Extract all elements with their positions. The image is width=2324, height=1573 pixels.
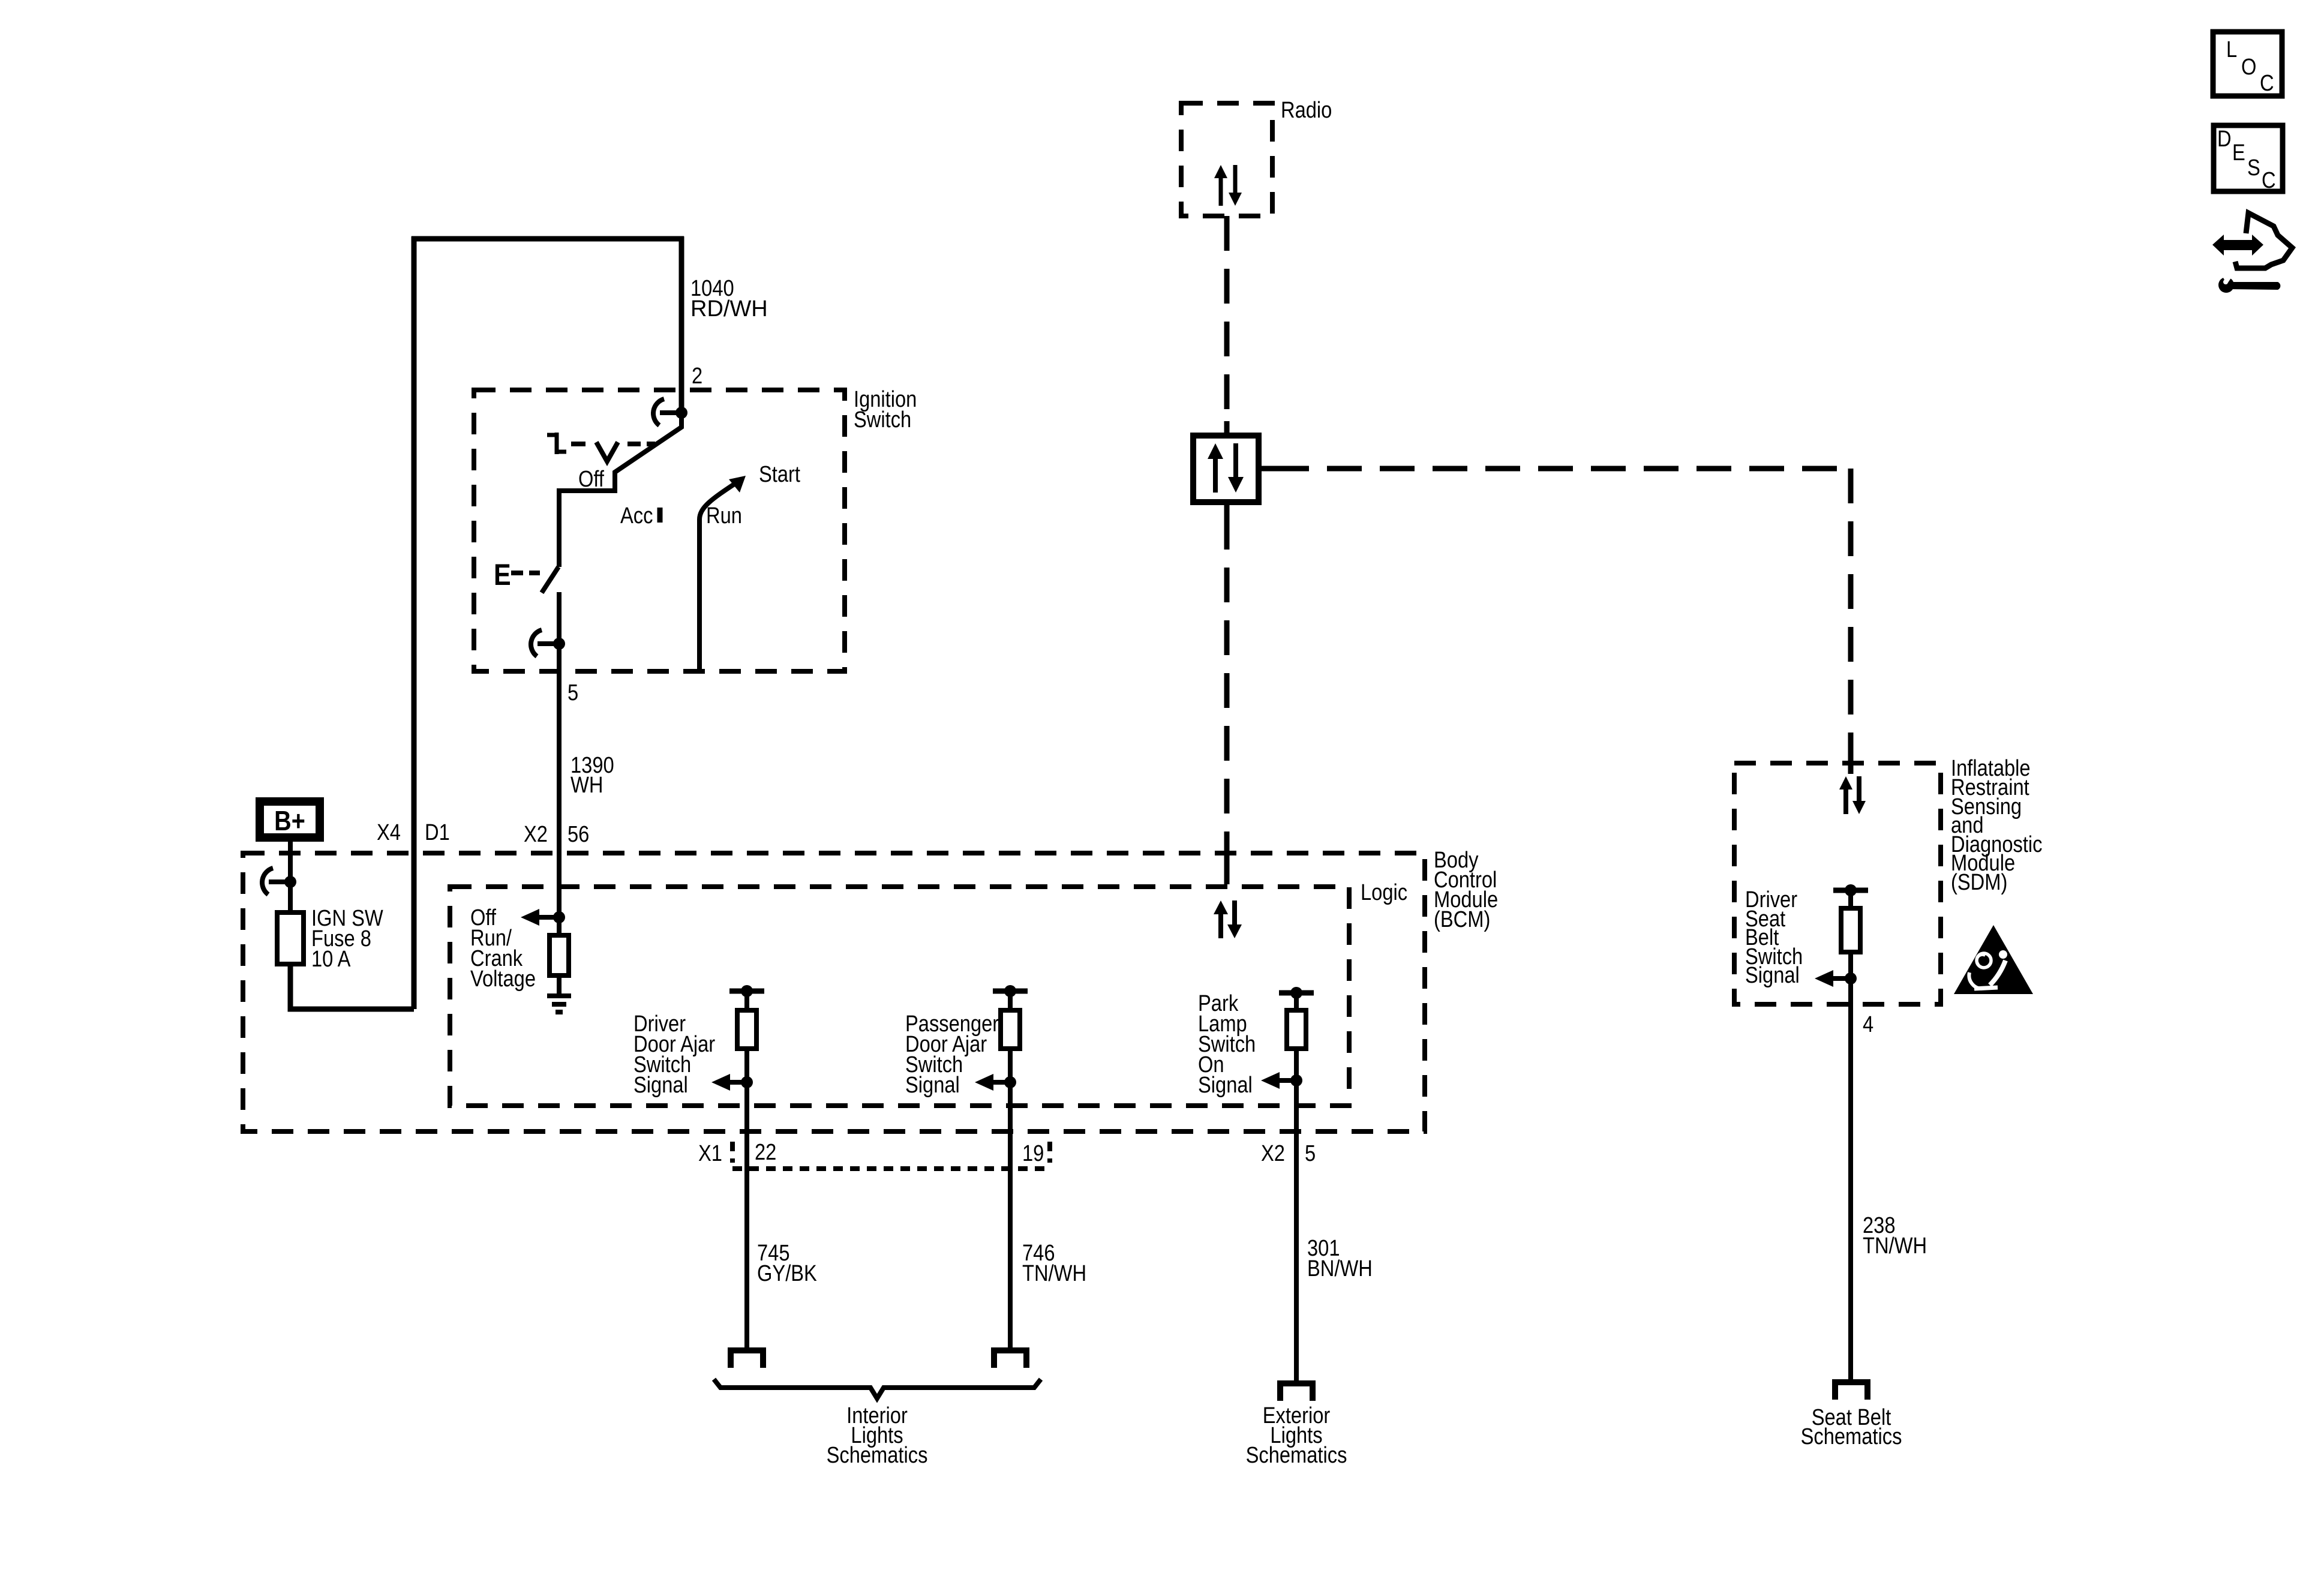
svg-text:D1: D1 (425, 819, 450, 845)
ground symbol (BCM internal) (547, 996, 571, 1012)
wire: serial data SDM drop (dashed) (1848, 469, 1854, 745)
arrow: park lamp switch on input (1277, 1078, 1296, 1083)
wire: seat belt signal / circuit 238 (1848, 952, 1853, 1382)
key-in mechanical dashes (511, 571, 540, 575)
svg-text:S: S (2247, 155, 2260, 181)
serial data arrows in radio (1219, 175, 1223, 206)
svg-text:10 A: 10 A (311, 946, 351, 972)
wire: battery feed top horizontal 1040 RD/WH (412, 236, 684, 242)
svg-text:E: E (494, 558, 511, 592)
svg-text:(BCM): (BCM) (1434, 906, 1490, 932)
svg-text:L: L (2226, 37, 2237, 62)
svg-text:X1: X1 (698, 1140, 722, 1166)
arrow: passenger door ajar switch input (990, 1080, 1010, 1085)
svg-text:C: C (2262, 167, 2276, 193)
svg-text:GY/BK: GY/BK (757, 1260, 817, 1286)
wire: 1040 RD/WH drop to ignition switch pin 2 (679, 236, 684, 413)
contact hook at fuse junction (269, 879, 290, 884)
contact hook at pin 2 (660, 410, 681, 415)
svg-text:Acc: Acc (620, 503, 653, 529)
Run/Start contact line with start arrow (699, 482, 738, 670)
wire: passenger door ajar switch input down (1008, 1049, 1013, 1082)
contact hook at key-in junction (538, 641, 559, 646)
svg-text:Logic: Logic (1361, 879, 1407, 905)
ignition switch S1 dashed enclosure (474, 390, 845, 671)
Acc contact tick (657, 508, 663, 523)
svg-text:5: 5 (568, 680, 578, 706)
svg-text:X2: X2 (524, 821, 548, 847)
resistor: passenger door ajar switch input pull-up (1001, 1010, 1020, 1049)
B+ power symbol box (260, 801, 320, 837)
node: fuse feed junction (284, 876, 296, 888)
svg-text:(SDM): (SDM) (1951, 869, 2007, 895)
node: pin 2 junction (675, 407, 687, 419)
arrow: off/run/crank voltage signal (536, 915, 559, 920)
svg-text:Signal: Signal (1198, 1072, 1253, 1098)
resistor: driver door ajar switch input pull-up (737, 1010, 756, 1049)
svg-text:Start: Start (759, 461, 800, 487)
radio dashed enclosure (1181, 103, 1272, 216)
airbag warning triangle (1954, 925, 2033, 994)
svg-text:TN/WH: TN/WH (1022, 1260, 1086, 1286)
icon: wrench (2218, 271, 2280, 293)
svg-text:Voltage: Voltage (470, 966, 536, 992)
fuse F8: IGN SW Fuse 8 10A (277, 912, 304, 964)
svg-text:Run: Run (706, 503, 742, 529)
icon: LOC box (2213, 32, 2282, 96)
serial data arrows in BCM logic (1218, 911, 1223, 938)
supply tick: seat belt input (1833, 888, 1868, 893)
icon: double-headed arrow (2212, 235, 2263, 256)
svg-text:Schematics: Schematics (1246, 1442, 1347, 1468)
wire: circuit 301 BN/WH (1294, 1080, 1299, 1383)
wire: serial data splice to SDM horizontal (dashed) (1274, 466, 1851, 472)
icon: DESC box (2214, 125, 2283, 191)
body control module (BCM) dashed enclosure (243, 853, 1425, 1131)
icon: connector-view arrow outline (2235, 213, 2292, 268)
svg-text:X2: X2 (1261, 1140, 1285, 1166)
svg-text:56: 56 (568, 821, 589, 847)
off-page connector: 746 (994, 1350, 1026, 1368)
svg-text:B+: B+ (274, 806, 305, 836)
inflatable restraint SDM dashed enclosure (1734, 763, 1941, 1004)
svg-text:WH: WH (571, 772, 603, 798)
arrow: driver door ajar switch input (727, 1080, 747, 1085)
wire: park lamp switch on input pull-up (1294, 993, 1299, 1010)
svg-text:22: 22 (755, 1139, 776, 1165)
wire: serial data SDM entry stub (1848, 745, 1854, 774)
wire: B+ to fuse (288, 837, 293, 912)
connector X1 dashed outline (732, 1142, 1050, 1169)
serial data arrows in SDM (1843, 786, 1848, 814)
off-page connector: 745 (731, 1350, 763, 1368)
mechanical link glyph (lock cylinder) (547, 433, 566, 454)
svg-text:RD/WH: RD/WH (690, 296, 768, 322)
airbag icon white artwork (1969, 950, 2007, 989)
wire: key-in lower contact / circuit 1390 (557, 592, 562, 935)
supply tick: driver door ajar switch input (729, 989, 764, 994)
wire: serial data splice to BCM (dashed) (1224, 515, 1230, 839)
wire: battery feed left vertical (to fuse return) (412, 236, 417, 1009)
svg-text:Signal: Signal (1745, 962, 1800, 988)
svg-text:BN/WH: BN/WH (1307, 1256, 1373, 1281)
off-page connector: 301 exterior lights (1280, 1383, 1313, 1401)
wire: serial data BCM entry stub (1224, 839, 1230, 884)
wire: splice box stub bottom (1224, 502, 1230, 515)
svg-text:Schematics: Schematics (827, 1442, 928, 1468)
svg-text:2: 2 (692, 363, 702, 389)
wire: splice box stub top (1224, 421, 1230, 436)
svg-text:TN/WH: TN/WH (1863, 1233, 1927, 1259)
node: seat belt junction (1845, 972, 1857, 984)
off-page connector: seat belt schematics (1835, 1382, 1867, 1400)
node: off/run/crank junction (553, 911, 565, 923)
node: passenger door ajar switch input junction (1004, 1076, 1016, 1088)
serial data splice box (1193, 436, 1259, 502)
svg-text:Signal: Signal (633, 1072, 688, 1098)
wire: splice box stub right (1259, 466, 1274, 472)
resistor: seat belt pull-up (1841, 908, 1860, 952)
resistor: BCM input pull-down (550, 935, 569, 975)
mechanical link dashes (571, 442, 655, 446)
resistor: park lamp switch on input pull-up (1287, 1010, 1306, 1049)
svg-text:X4: X4 (377, 819, 401, 845)
wire: fuse output down and right (290, 964, 414, 1009)
key-in switch blade (open) (542, 567, 559, 593)
svg-text:Off: Off (578, 466, 604, 492)
svg-text:Signal: Signal (905, 1072, 960, 1098)
wire: driver door ajar switch input pull-up (744, 991, 749, 1010)
svg-text:D: D (2217, 126, 2232, 152)
wire: park lamp switch on input down (1294, 1049, 1299, 1080)
mechanical link arrowhead V (596, 442, 618, 461)
switch wiper: ignition main contact (559, 413, 681, 567)
wire: resistor to ground (557, 975, 562, 996)
node: key-in junction (553, 638, 565, 650)
wire: serial data radio to splice (dashed) (1224, 216, 1230, 436)
svg-text:E: E (2232, 140, 2245, 166)
wire: seat belt pull-up (1848, 890, 1853, 908)
wire: circuit 745 GY/BK (744, 1082, 749, 1350)
svg-text:4: 4 (1863, 1011, 1873, 1037)
node: driver door ajar switch input junction (741, 1076, 753, 1088)
svg-text:5: 5 (1305, 1140, 1316, 1166)
supply tick: park lamp switch on input (1279, 990, 1314, 996)
wire: circuit 746 TN/WH (1008, 1082, 1013, 1350)
svg-text:C: C (2260, 70, 2274, 96)
svg-text:19: 19 (1022, 1140, 1044, 1166)
BCM logic inner dashed box (450, 887, 1349, 1106)
arrow: driver seat belt switch signal (1830, 976, 1851, 981)
brace: interior lights group (714, 1379, 1041, 1398)
wire: driver door ajar switch input down (744, 1049, 749, 1082)
node: park lamp switch on input junction (1290, 1074, 1302, 1086)
svg-text:Radio: Radio (1281, 97, 1332, 123)
supply tick: passenger door ajar switch input (993, 989, 1028, 994)
svg-text:O: O (2241, 54, 2256, 80)
serial data arrows in splice box (1213, 455, 1218, 493)
svg-text:Schematics: Schematics (1801, 1424, 1902, 1449)
wire: passenger door ajar switch input pull-up (1008, 991, 1013, 1010)
svg-text:Switch: Switch (854, 407, 911, 433)
start arrowhead (729, 476, 746, 493)
